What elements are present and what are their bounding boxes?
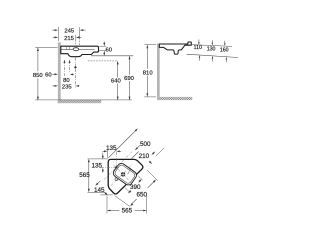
svg-text:80: 80 bbox=[63, 78, 70, 84]
svg-text:690: 690 bbox=[124, 76, 135, 82]
svg-text:110: 110 bbox=[194, 45, 202, 51]
svg-text:210: 210 bbox=[139, 153, 150, 160]
svg-text:60: 60 bbox=[45, 72, 52, 78]
svg-text:235: 235 bbox=[62, 84, 73, 90]
svg-text:390: 390 bbox=[130, 184, 141, 191]
svg-text:500: 500 bbox=[140, 141, 151, 148]
svg-text:145: 145 bbox=[94, 187, 105, 194]
svg-text:245: 245 bbox=[64, 29, 75, 35]
svg-text:215: 215 bbox=[64, 36, 75, 42]
svg-text:130: 130 bbox=[207, 46, 216, 52]
svg-text:135: 135 bbox=[92, 163, 103, 170]
svg-text:810: 810 bbox=[143, 70, 154, 76]
svg-text:650: 650 bbox=[137, 191, 148, 198]
svg-text:565: 565 bbox=[79, 172, 90, 179]
svg-text:60: 60 bbox=[106, 47, 113, 53]
svg-text:565: 565 bbox=[122, 208, 133, 215]
svg-text:640: 640 bbox=[111, 79, 122, 85]
svg-text:160: 160 bbox=[220, 48, 229, 54]
svg-text:850: 850 bbox=[33, 73, 44, 79]
